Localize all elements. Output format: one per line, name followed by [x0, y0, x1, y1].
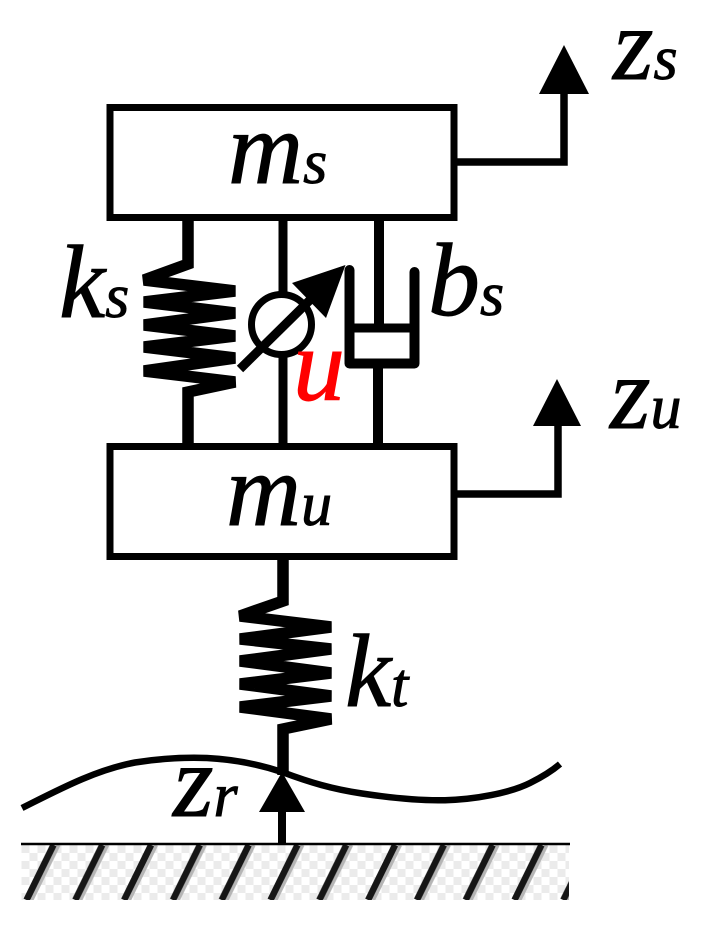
svg-text:zs: zs: [611, 0, 678, 102]
svg-text:bs: bs: [428, 223, 504, 338]
road input arrowhead: [259, 772, 305, 812]
mass block mu: [110, 447, 454, 557]
damper piston plate: [345, 324, 419, 333]
ground top line: [21, 843, 570, 846]
road profile curve: [22, 758, 560, 808]
actuator circle: [252, 295, 312, 355]
mass block ms: [110, 108, 454, 218]
actuator link lower wire: [279, 356, 288, 446]
damper cylinder cup: [350, 270, 415, 364]
svg-text:zr: zr: [171, 724, 238, 839]
arrowhead zu: [533, 379, 581, 426]
wire zu connector: [454, 424, 558, 494]
svg-text:zu: zu: [608, 336, 681, 451]
actuator arrowhead: [292, 265, 346, 318]
damper rod upper: [374, 218, 384, 328]
actuator link upper wire: [279, 218, 288, 292]
damper rod lower: [373, 363, 383, 446]
road input wire: [278, 810, 286, 845]
spring ks: [144, 218, 235, 446]
actuator diagonal arrow shaft: [240, 299, 311, 369]
spring kt: [240, 557, 331, 775]
wire zs connector: [454, 92, 564, 162]
ground hatched band: [22, 845, 570, 900]
svg-text:kt: kt: [345, 614, 410, 729]
svg-text:u: u: [293, 308, 345, 423]
svg-text:ks: ks: [59, 225, 129, 340]
arrowhead zs: [539, 45, 589, 94]
